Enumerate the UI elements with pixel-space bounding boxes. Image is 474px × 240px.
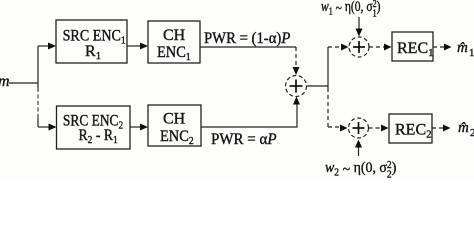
- svg-text:R1: R1: [85, 43, 101, 62]
- label PWR = aP: [211, 131, 277, 148]
- svg-text:CH: CH: [163, 111, 186, 128]
- svg-text:ENC2: ENC2: [160, 127, 194, 147]
- svg-text:R2 - R1: R2 - R1: [79, 127, 118, 146]
- wire from m to branch point: [9, 82, 38, 84]
- svg-text:PWR = αP: PWR = αP: [211, 131, 277, 148]
- label PWR = (1-a)P: [204, 31, 290, 47]
- svg-text:m̂: m̂: [457, 40, 468, 56]
- wire CH ENC1 output: [200, 46, 296, 48]
- label w2 noise: [325, 160, 397, 181]
- svg-text:1: 1: [469, 47, 474, 59]
- box SRC ENC1: [56, 20, 127, 63]
- box CH ENC1: [148, 21, 200, 63]
- wire dashed REC1 to output: [433, 46, 446, 48]
- svg-text:CH: CH: [163, 27, 186, 44]
- svg-text:REC1: REC1: [397, 40, 434, 59]
- svg-text:w2 ~ η(0, σ22): w2 ~ η(0, σ22): [325, 160, 397, 178]
- wire SRC ENC2 to CH ENC2: [130, 126, 141, 128]
- adder (power combiner): [286, 76, 307, 97]
- svg-text:REC2: REC2: [395, 122, 432, 141]
- wire to SRC ENC1: [38, 45, 50, 47]
- box REC2: [389, 114, 432, 143]
- label w1 noise: [321, 0, 380, 19]
- adder2 (noise w2): [349, 118, 369, 138]
- wire dashed adder1 to REC1: [369, 46, 386, 48]
- wire split vertical: [327, 47, 329, 88]
- adder1 (noise w1): [349, 37, 369, 57]
- svg-text:m: m: [0, 73, 10, 90]
- svg-text:2: 2: [470, 127, 474, 139]
- wire w2 arrow: [358, 144, 360, 156]
- wire w1 arrow: [358, 17, 360, 31]
- svg-text:PWR = (1-α)P: PWR = (1-α)P: [204, 31, 290, 47]
- wire dashed REC2 to output: [432, 127, 445, 129]
- wire adder output: [307, 85, 329, 87]
- svg-text:m̂: m̂: [458, 120, 469, 136]
- wire to SRC ENC2: [38, 126, 50, 128]
- svg-text:w1 ~ η(0, σ21): w1 ~ η(0, σ21): [321, 0, 380, 19]
- wire CH ENC2 output: [201, 103, 297, 127]
- wire dashed down to adder: [295, 47, 297, 69]
- wire dashed to adder2: [328, 126, 341, 128]
- box SRC ENC2: [57, 106, 131, 149]
- wire dashed to adder1: [328, 46, 343, 48]
- box CH ENC2: [148, 105, 201, 146]
- wire SRC ENC1 to CH ENC1: [127, 45, 141, 47]
- svg-text:ENC1: ENC1: [157, 43, 191, 63]
- box REC1: [392, 32, 433, 61]
- wire dashed adder2 to REC2: [369, 127, 384, 129]
- wire branch vertical: [37, 46, 39, 88]
